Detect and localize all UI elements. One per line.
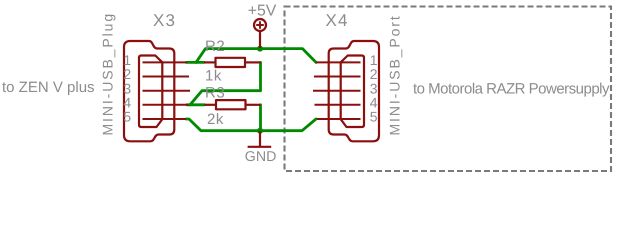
svg-text:1k: 1k (205, 68, 222, 85)
svg-text:R2: R2 (205, 38, 225, 55)
svg-text:5: 5 (370, 109, 378, 125)
svg-text:X3: X3 (153, 11, 176, 30)
svg-text:X4: X4 (326, 11, 349, 30)
svg-text:5: 5 (123, 109, 131, 125)
svg-text:R3: R3 (205, 85, 225, 102)
svg-text:MINI-USB_Port: MINI-USB_Port (387, 14, 403, 135)
svg-text:GND: GND (245, 149, 277, 165)
svg-text:to ZEN V plus: to ZEN V plus (2, 79, 95, 96)
svg-text:MINI-USB_Plug: MINI-USB_Plug (100, 12, 116, 136)
svg-text:to Motorola RAZR Powersupply: to Motorola RAZR Powersupply (413, 81, 610, 98)
svg-text:+5V: +5V (248, 3, 277, 20)
svg-text:2k: 2k (207, 111, 224, 128)
